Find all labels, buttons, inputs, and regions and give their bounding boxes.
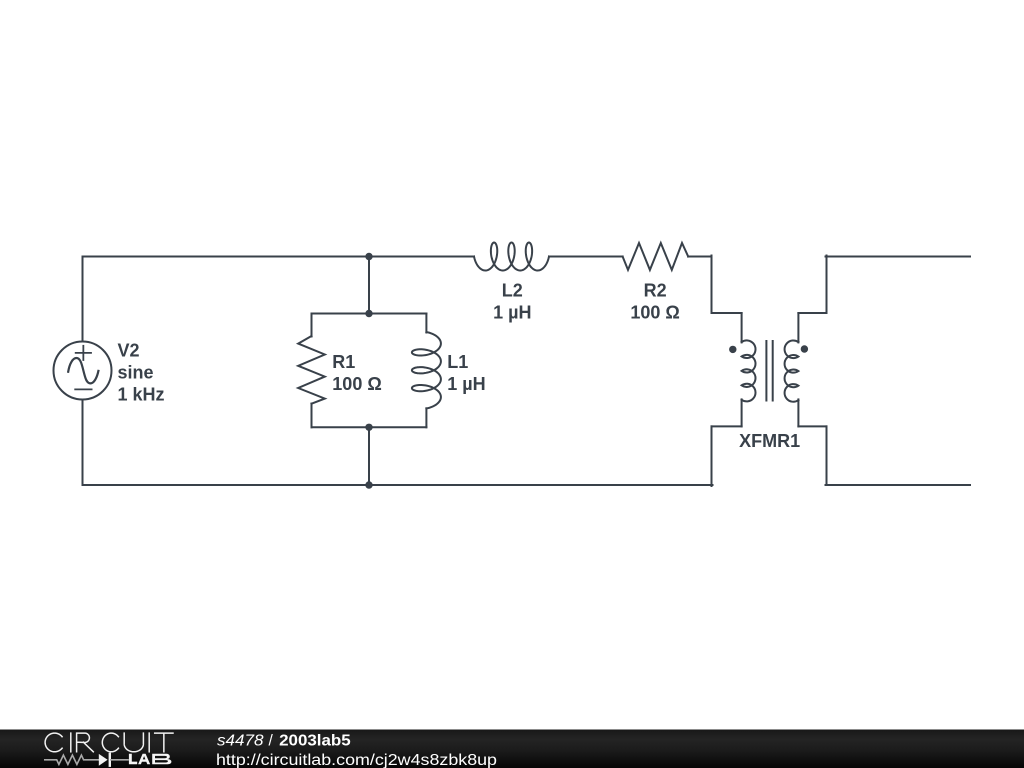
svg-text:R1: R1	[332, 352, 355, 372]
svg-text:100 Ω: 100 Ω	[630, 302, 679, 322]
svg-text:/: /	[269, 732, 274, 749]
svg-text:sine: sine	[118, 363, 154, 383]
svg-text:2003lab5: 2003lab5	[279, 732, 351, 749]
svg-text:1 µH: 1 µH	[493, 303, 531, 323]
svg-text:100 Ω: 100 Ω	[332, 374, 381, 394]
svg-text:1 kHz: 1 kHz	[118, 385, 165, 405]
svg-text:XFMR1: XFMR1	[739, 431, 800, 451]
svg-text:1 µH: 1 µH	[447, 374, 485, 394]
svg-text:V2: V2	[118, 341, 140, 361]
svg-text:L1: L1	[447, 352, 468, 372]
svg-text:R2: R2	[644, 280, 667, 300]
svg-text:http://circuitlab.com/cj2w4s8z: http://circuitlab.com/cj2w4s8zbk8up	[216, 752, 497, 768]
svg-text:L2: L2	[502, 280, 523, 300]
svg-text:s4478: s4478	[217, 732, 264, 749]
